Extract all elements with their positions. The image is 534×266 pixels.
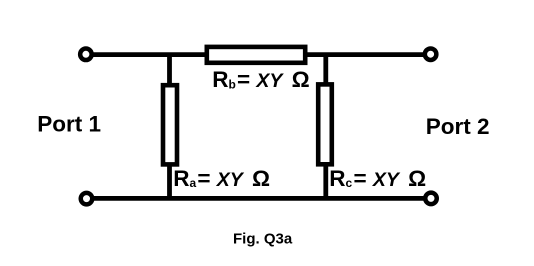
svg-text:Rc= XY Ω: Rc= XY Ω xyxy=(329,166,426,191)
svg-text:Fig. Q3a: Fig. Q3a xyxy=(233,230,293,247)
wire right branch bottom stub xyxy=(323,163,328,198)
resistor Rc xyxy=(318,84,332,164)
terminal port 2 bottom xyxy=(425,193,437,205)
wire bottom rail xyxy=(92,196,425,201)
wire left branch top stub xyxy=(167,55,172,88)
terminal port 2 top xyxy=(425,48,437,60)
resistor Rb xyxy=(207,47,305,63)
resistor Ra xyxy=(163,85,177,164)
terminal port 1 top xyxy=(80,49,92,61)
wire left branch bottom stub xyxy=(167,163,172,198)
svg-text:Port 2: Port 2 xyxy=(426,114,490,139)
terminal port 1 bottom xyxy=(81,193,93,205)
svg-text:Ra= XY Ω: Ra= XY Ω xyxy=(173,166,270,191)
svg-text:Port 1: Port 1 xyxy=(37,111,101,136)
wire top rail left segment xyxy=(92,52,207,57)
svg-text:Rb= XY Ω: Rb= XY Ω xyxy=(212,67,310,92)
wire right branch top stub xyxy=(323,55,328,88)
wire top rail right segment xyxy=(305,52,425,57)
